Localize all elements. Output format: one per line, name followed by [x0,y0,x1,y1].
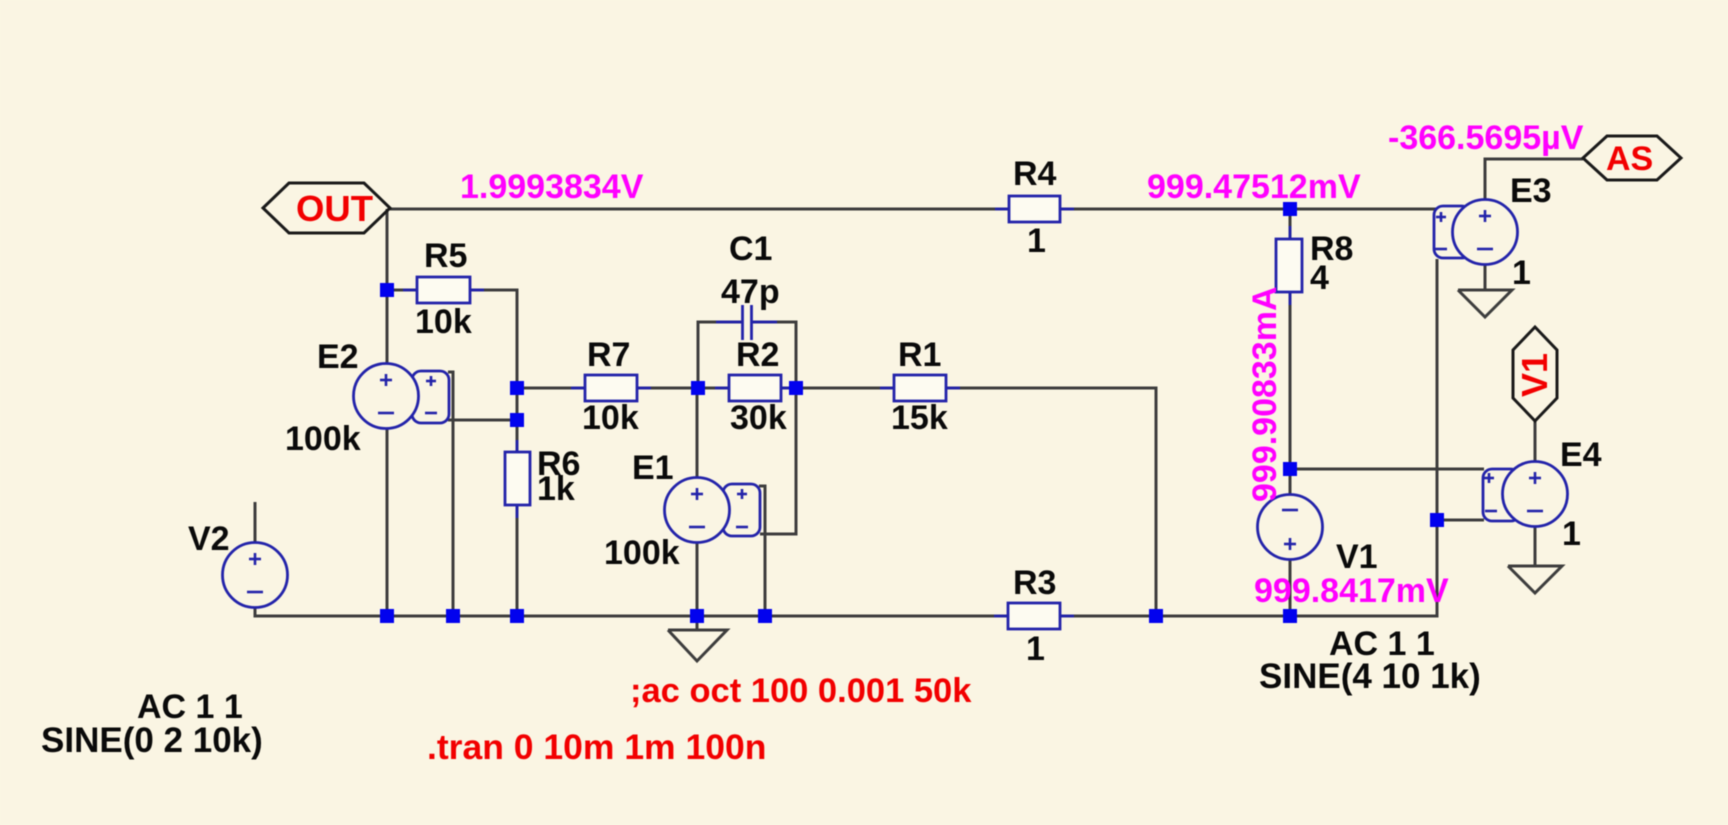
wire E1 control plus down to ground rail [759,486,765,616]
value 1k of R6 [537,470,575,508]
port V1 [1513,327,1557,421]
svg-text:E4: E4 [1560,436,1602,474]
svg-text:1: 1 [1026,630,1045,668]
wire R5 left [387,289,417,292]
label R3 [1013,564,1056,602]
svg-text:R4: R4 [1013,155,1057,193]
net voltage 1.9993834V [460,168,644,206]
svg-text:R5: R5 [424,237,467,275]
wire R2 right to node Z [781,387,894,390]
svg-text:OUT: OUT [296,188,373,229]
label R1 [898,336,941,374]
svg-text:999.90833mA: 999.90833mA [1246,286,1284,502]
capacitor C1 [716,305,777,340]
node junction rail V1 [1283,609,1297,623]
V1 spice line SINE(4 10 1k) [1259,657,1481,696]
node junction rail R1 [1149,609,1163,623]
node junction rail R6 [510,609,524,623]
wire R7 to node Y [637,387,729,390]
label V2 [188,520,230,558]
node junction rail E2 ctrl [446,609,460,623]
net voltage -366.5695uV [1388,119,1584,157]
svg-text:SINE(4 10 1k): SINE(4 10 1k) [1259,657,1481,696]
svg-text:.tran 0 10m 1m 100n: .tran 0 10m 1m 100n [427,727,766,767]
ground under E1 [668,616,727,661]
wire E4 control minus junction [1437,519,1484,522]
resistor R2 [715,375,795,401]
svg-text:R3: R3 [1013,564,1056,602]
wire V2 top stub [254,502,257,542]
resistor R5 [403,277,484,303]
label R4 [1013,155,1057,193]
svg-text:AS: AS [1606,140,1653,178]
E-source E3 [1434,200,1518,265]
value 15k of R1 [891,399,948,437]
node junction W R8-V1-E4 [1283,462,1297,476]
svg-text:1.9993834V: 1.9993834V [460,168,644,206]
label E1 [632,449,674,487]
node junction X R5-R7 [510,381,524,395]
wire E2 control minus to node X [448,419,517,422]
wire R4 node down to R8 top [1289,209,1292,240]
svg-text:E3: E3 [1510,172,1552,210]
node junction rail E1 ctrl [758,609,772,623]
wire E3 output top to AS port [1485,159,1583,200]
svg-text:E2: E2 [317,338,359,376]
svg-text:R1: R1 [898,336,941,374]
wire node X to R7 [517,387,585,390]
spice directive ac [630,672,972,710]
node junction OUT-R5 [380,283,394,297]
wire node W to E4 control plus [1290,468,1484,471]
wire node OUT down to E2 output top [386,209,389,364]
ground under E3 [1458,290,1512,317]
wire R5 right down to node X [470,290,517,452]
wire E4 output bottom to ground [1534,526,1537,566]
svg-text:15k: 15k [891,399,948,437]
resistor R1 [880,375,960,401]
current 999.90833mA rotated [1246,286,1284,502]
label E3 [1510,172,1552,210]
resistor R3 [994,603,1074,629]
wire E3 output bottom to ground [1484,264,1487,290]
svg-text:;ac oct 100 0.001 50k: ;ac oct 100 0.001 50k [630,672,972,710]
V2 spice line AC 1 1 [137,688,243,726]
ground under E4 [1508,566,1562,593]
svg-text:SINE(0 2 10k): SINE(0 2 10k) [41,721,263,760]
wire bottom rail R3 to corner up E3 control minus [1060,259,1437,616]
label R2 [736,336,779,374]
port OUT [263,183,390,233]
svg-text:47p: 47p [721,273,780,311]
net voltage 999.47512mV [1147,168,1361,206]
node junction Y R7-R2-C1-E1 [691,381,705,395]
resistor R6 [505,440,530,518]
wire V1 port down to E4 output top [1534,420,1537,462]
voltage source V1 [1258,495,1323,560]
wire top rail OUT to R4 [390,208,1009,211]
value 1 of E3 [1512,254,1531,292]
wire node Y up to C1 left plate [698,322,742,388]
wire E2 output bottom to ground rail [386,428,389,616]
svg-text:R2: R2 [736,336,779,374]
wire V1 source bottom to rail [1289,559,1292,616]
value 100k of E2 [285,420,361,458]
voltage source V2 [223,543,288,608]
value 1 of R3 [1026,630,1045,668]
value 1 of R4 [1027,222,1046,260]
svg-text:30k: 30k [730,399,787,437]
node junction E4 control minus [1430,513,1444,527]
wire R8 bottom to node W [1289,292,1292,495]
E-source E2 [354,364,450,429]
node junction rail E2 out [380,609,394,623]
value 10k of R7 [582,399,639,437]
label R7 [587,336,630,374]
value 47p of C1 [721,273,780,311]
svg-text:4: 4 [1310,259,1329,297]
spice directive tran [427,727,766,767]
value 4 of R8 [1310,259,1329,297]
label C1 [729,230,772,268]
svg-text:C1: C1 [729,230,772,268]
node junction top R8 [1283,202,1297,216]
wire E1 output bottom to ground rail [696,543,699,616]
port AS [1583,136,1681,180]
wire R6 bottom to ground rail [516,505,519,616]
svg-text:1: 1 [1027,222,1046,260]
value 100k of E1 [604,534,680,572]
value 30k of R2 [730,399,787,437]
svg-text:999.8417mV: 999.8417mV [1254,572,1449,610]
svg-text:1: 1 [1512,254,1531,292]
node junction rail E1 out [690,609,704,623]
wire R1 right down to bottom rail [946,388,1156,616]
node junction Z R2-R1-C1 [789,381,803,395]
net voltage 999.8417mV [1254,572,1449,610]
svg-text:-366.5695µV: -366.5695µV [1388,119,1584,157]
wire C1 right plate down to E1 control minus [751,322,796,534]
E-source E1 [665,478,761,543]
svg-text:999.47512mV: 999.47512mV [1147,168,1361,206]
svg-text:10k: 10k [582,399,639,437]
wire E1 output top to node Y [696,388,699,477]
svg-text:R7: R7 [587,336,630,374]
value 10k of R5 [415,303,472,341]
svg-text:V1: V1 [1336,538,1378,576]
wire R4 to E3 control plus [1060,208,1437,211]
svg-text:1: 1 [1562,515,1581,553]
label V1 [1336,538,1378,576]
resistor R8 [1276,226,1302,305]
svg-text:100k: 100k [285,420,361,458]
V2 spice line SINE(0 2 10k) [41,721,263,760]
resistor R7 [571,375,651,401]
svg-text:V1: V1 [1514,353,1555,397]
label R6 [537,445,580,483]
resistor R4 [995,196,1074,222]
V1 spice line AC 1 1 [1329,625,1435,663]
E-source E4 [1483,462,1568,527]
wire E2 control plus down to ground rail [448,372,453,616]
label R5 [424,237,467,275]
svg-text:1k: 1k [537,470,575,508]
label R8 [1310,230,1353,268]
svg-text:V2: V2 [188,520,230,558]
svg-text:10k: 10k [415,303,472,341]
label E2 [317,338,359,376]
value 1 of E4 [1562,515,1581,553]
svg-text:100k: 100k [604,534,680,572]
svg-text:E1: E1 [632,449,674,487]
label E4 [1560,436,1602,474]
node junction X E2 control minus [510,413,524,427]
wire bottom rail V2 to R3 [255,608,1008,616]
